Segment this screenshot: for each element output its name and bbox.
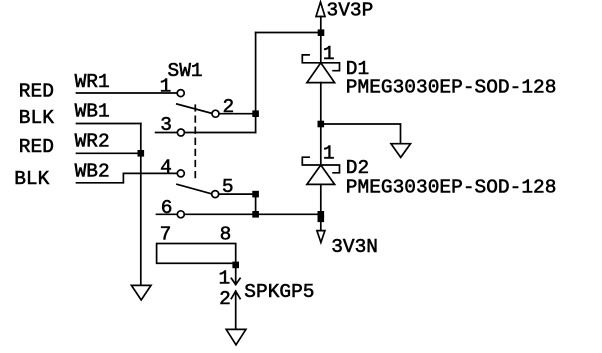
svg-text:RED: RED [19,81,54,103]
pin 2 contact circle [212,110,219,117]
diode D2 anode lead [320,184,322,214]
svg-text:WR2: WR2 [75,130,110,152]
pin 3 contact circle [177,129,184,136]
diode D1 cathode lead [320,33,322,63]
svg-text:BLK: BLK [19,107,54,129]
svg-text:1: 1 [160,76,172,98]
diode D2 triangle [307,165,335,184]
svg-text:WB1: WB1 [75,100,110,122]
pin 5 contact circle [212,191,219,198]
diode D1 anode lead [320,83,322,124]
svg-text:WR1: WR1 [75,71,110,93]
node pin5 junction [252,191,259,198]
pin 4 contact circle [177,170,184,177]
ground (left) [131,285,151,300]
svg-text:3V3N: 3V3N [331,236,378,258]
ground (bottom, SPKGP5 pin 2) [226,329,246,344]
switch arm pole B [177,184,212,194]
wire WB2 [77,173,178,182]
wire left vertical to ground [140,124,142,286]
diode D1 triangle [307,63,335,83]
connector SPKGP5 pin 1 arrow (down) [231,263,240,284]
wire pin6 stub [157,213,178,215]
wire WR2 [77,152,141,154]
svg-text:8: 8 [220,223,232,245]
wire pin2 to bus [219,113,256,115]
svg-text:SPKGP5: SPKGP5 [244,281,314,303]
wire top horizontal from SW1 to 3V3P node [256,32,321,34]
svg-text:6: 6 [161,197,173,219]
node 3V3N junction lower dot [318,216,325,223]
svg-text:WB2: WB2 [75,160,110,182]
ground (right) [391,144,411,158]
node pin6 junction [252,211,259,218]
wire pins 7-8 shorting loop [157,244,236,264]
svg-text:7: 7 [160,223,172,245]
svg-text:PMEG3030EP-SOD-128: PMEG3030EP-SOD-128 [346,77,557,99]
wire pin3 stub [156,132,178,134]
diode D2 schottky cathode bar [302,157,339,173]
wire pin5 to bus [219,193,256,195]
node WR2/WB1 junction [138,150,145,157]
switch arm pole A [177,104,212,113]
connector SPKGP5 pin 2 arrow (up) [231,291,240,328]
wire junction to right ground [321,124,401,144]
svg-text:1: 1 [219,268,231,290]
power symbol 3V3N [317,214,325,242]
power symbol 3V3P [316,2,325,33]
svg-text:1: 1 [323,43,335,65]
svg-text:BLK: BLK [14,168,49,190]
wire pin6 to D2 node [184,213,320,215]
wire WR1 [77,92,178,94]
node 3V3N junction [318,211,325,218]
node pin8 junction [232,262,239,269]
wire WB1 [77,123,141,125]
diode D2 cathode lead [320,124,322,165]
wire vertical SW1 pins 5-6 bus [255,194,257,214]
pin 1 contact circle [177,90,184,97]
svg-text:2: 2 [219,288,231,310]
svg-text:1: 1 [323,142,335,164]
svg-text:RED: RED [19,136,54,158]
wire vertical SW1 pins 2-3 bus [255,33,257,133]
diode D1 schottky cathode bar [302,55,339,71]
svg-text:PMEG3030EP-SOD-128: PMEG3030EP-SOD-128 [346,177,557,199]
node 3V3P junction [318,29,325,36]
svg-text:SW1: SW1 [168,60,203,82]
svg-text:3V3P: 3V3P [327,0,374,22]
pin 6 contact circle [177,211,184,218]
switch coupling dashed line [194,105,196,182]
wire pin3 to bus [184,132,255,134]
svg-text:4: 4 [160,157,172,179]
node D1/D2 junction [318,121,325,128]
node pin2 junction [252,110,259,117]
